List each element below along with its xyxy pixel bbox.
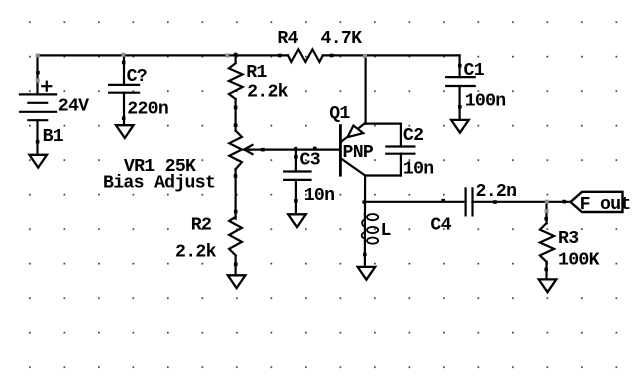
pin nub B1 +	[36, 71, 40, 75]
svg-text:Q1: Q1	[329, 104, 350, 124]
svg-text:R3: R3	[558, 229, 578, 249]
wire C1 top	[459, 55, 461, 77]
wire top rail left segment	[38, 54, 289, 56]
pin nub F out	[563, 200, 567, 204]
capacitor C2	[386, 147, 414, 154]
wire R1 to VR1	[235, 99, 237, 131]
wire C2 bottom	[400, 154, 402, 176]
inductor L	[362, 214, 379, 244]
junction nubs	[36, 53, 566, 272]
svg-text:4.7K: 4.7K	[321, 29, 363, 49]
wire VR1 to R2	[235, 169, 237, 219]
ground C1	[451, 120, 469, 133]
svg-text:C2: C2	[403, 126, 423, 146]
ground battery	[29, 155, 47, 168]
wire R3 bottom	[545, 262, 547, 280]
pin nub C1 bottom	[458, 105, 462, 109]
ground R3	[539, 279, 557, 292]
svg-text:C3: C3	[300, 151, 320, 171]
wire R2 bottom	[235, 256, 237, 276]
pin nub C? top	[122, 61, 126, 65]
svg-text:Bias Adjust: Bias Adjust	[103, 174, 215, 194]
connector F out	[571, 192, 623, 212]
resistor R3	[540, 223, 554, 262]
wire collector to C2	[365, 174, 401, 176]
svg-text:L: L	[381, 221, 391, 241]
junction C3 base-wire tee	[294, 147, 297, 150]
svg-text:C1: C1	[464, 61, 485, 81]
pin nub C4 right	[493, 200, 497, 204]
wire output left	[365, 201, 466, 203]
junction R1 rail tee	[234, 53, 238, 57]
wire C2 top	[400, 124, 402, 147]
svg-text:2.2k: 2.2k	[175, 243, 217, 263]
battery plus sign	[42, 82, 51, 91]
svg-text:220n: 220n	[127, 99, 168, 119]
pin nub C3 bottom	[294, 199, 298, 203]
pin nub R2 top	[234, 210, 238, 214]
svg-text:R4: R4	[277, 29, 298, 49]
ground R2	[228, 275, 246, 288]
capacitor C3	[284, 172, 310, 180]
pin nub R4 right	[330, 54, 334, 58]
pin nub Q1 base	[313, 147, 317, 151]
svg-text:PNP: PNP	[343, 143, 374, 163]
wire R3 top	[545, 202, 547, 223]
wire C? bottom	[123, 93, 125, 126]
wire C? top	[123, 55, 125, 85]
svg-text:C?: C?	[127, 67, 147, 87]
pin nub C4 left	[441, 199, 445, 203]
resistor R2	[229, 217, 242, 256]
node R1 rail junction	[225, 54, 229, 58]
capacitor C4	[466, 188, 473, 215]
wire output right	[473, 201, 571, 203]
svg-text:F out: F out	[580, 195, 631, 215]
node emitter rail junction	[363, 54, 367, 58]
wire emitter vertical	[365, 55, 367, 123]
resistor R1	[229, 63, 243, 99]
wire wiper to base	[244, 149, 340, 151]
svg-text:R1: R1	[246, 63, 267, 83]
pin nub C? bottom	[122, 117, 126, 121]
wire top rail right segment	[323, 54, 460, 56]
svg-text:R2: R2	[191, 216, 211, 236]
battery B1	[20, 94, 56, 120]
pin nub R4 left	[278, 54, 282, 58]
pin nub R2 bottom	[234, 263, 238, 267]
svg-text:B1: B1	[43, 127, 64, 147]
transistor Q1	[340, 124, 365, 176]
ground C3	[288, 214, 306, 227]
svg-text:100K: 100K	[558, 251, 600, 271]
ground C?	[116, 125, 134, 138]
svg-text:24V: 24V	[58, 97, 89, 117]
wire battery top	[36, 55, 38, 94]
pin nub VR1 top	[234, 123, 238, 127]
pin nub R3 top	[544, 217, 548, 221]
wire C3 top	[295, 150, 297, 172]
svg-text:10n: 10n	[403, 160, 434, 180]
pin nub L bottom	[363, 253, 367, 257]
pin nub C1 top	[458, 64, 462, 68]
node R3 output junction	[545, 200, 549, 204]
wire battery bottom	[36, 120, 38, 155]
node R3 pin	[545, 209, 549, 213]
resistor R4	[288, 49, 323, 62]
wire C1 bottom	[459, 86, 461, 120]
svg-text:10n: 10n	[304, 186, 335, 206]
svg-text:2.2n: 2.2n	[476, 182, 517, 202]
wire C3 bottom	[295, 180, 297, 214]
wire emitter to C2	[365, 122, 401, 124]
gray junction squares	[36, 53, 549, 213]
pin nub R3 bottom	[544, 268, 548, 272]
node battery top	[36, 79, 40, 83]
wiper arrow VR1	[244, 145, 252, 154]
svg-text:100n: 100n	[465, 92, 506, 112]
svg-text:C4: C4	[430, 216, 451, 236]
capacitor C?	[109, 85, 139, 93]
capacitor C1	[446, 77, 475, 86]
node rail left corner	[36, 54, 40, 58]
pin nub C3 top	[294, 155, 298, 159]
pin nub VR1 bottom	[234, 174, 238, 178]
pin nub R1 bottom	[234, 106, 238, 110]
ground L	[358, 267, 376, 280]
node C? rail junction	[121, 53, 125, 57]
pin nub B1 -	[36, 140, 40, 144]
pin nub VR1 wiper	[261, 148, 265, 152]
potentiometer VR1	[229, 131, 242, 170]
wire collector down	[364, 176, 366, 214]
svg-text:2.2k: 2.2k	[247, 83, 289, 103]
wire R1 top stub	[235, 55, 237, 62]
junction collector output tee	[362, 200, 365, 203]
